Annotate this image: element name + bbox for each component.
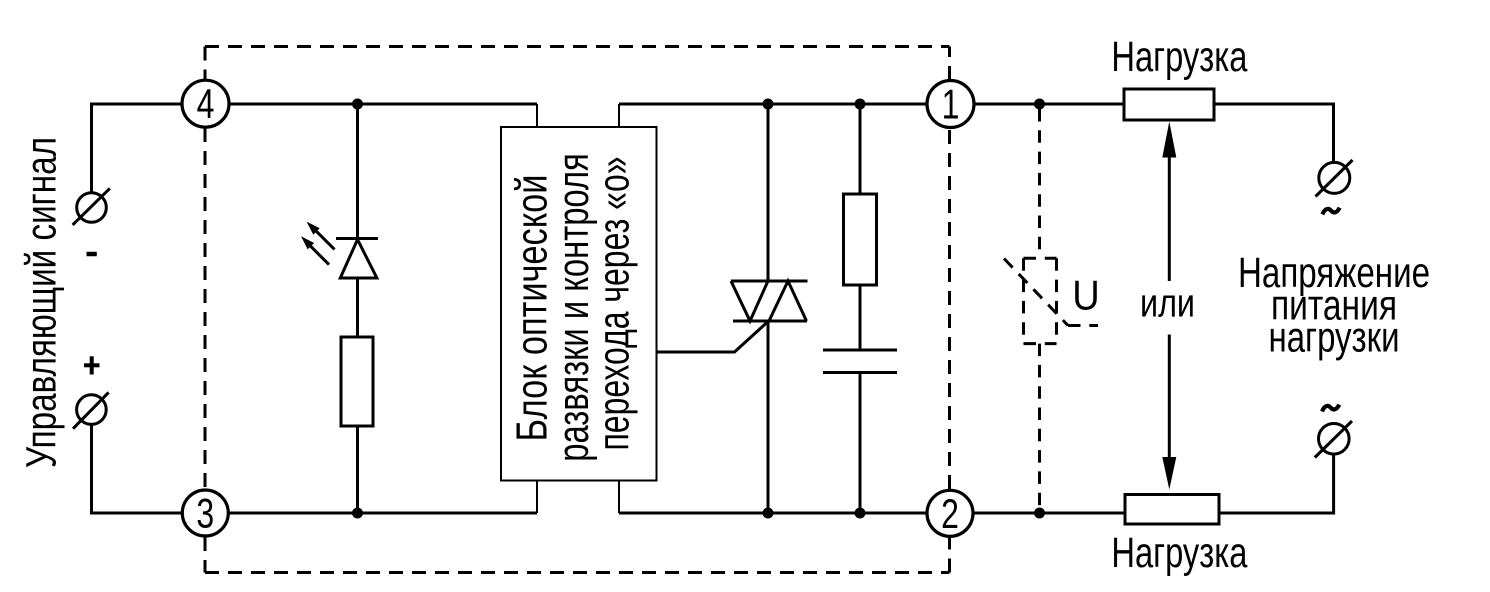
svg-text:2: 2 (941, 490, 959, 537)
svg-text:Нагрузка: Нагрузка (1111, 529, 1247, 577)
svg-text:4: 4 (197, 80, 215, 127)
svg-text:перехода через «о»: перехода через «о» (590, 157, 639, 451)
svg-text:1: 1 (942, 81, 960, 128)
svg-text:U: U (1072, 272, 1100, 319)
svg-text:Управляющий сигнал: Управляющий сигнал (18, 137, 66, 468)
svg-text:3: 3 (196, 490, 214, 537)
svg-text:нагрузки: нагрузки (1269, 314, 1400, 362)
svg-text:или: или (1140, 282, 1195, 326)
svg-text:Нагрузка: Нагрузка (1111, 33, 1247, 81)
